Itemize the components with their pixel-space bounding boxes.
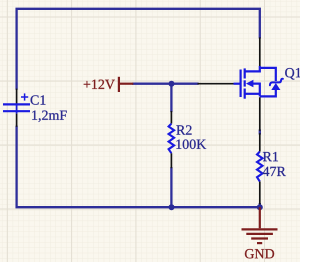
Q1 diode triangle (271, 83, 280, 90)
transistor Q1 MOSFET symbol (234, 66, 276, 99)
Q1 channel segment bottom (244, 89, 246, 99)
ground bar 4 (257, 242, 262, 244)
capacitor C1 plates (3, 104, 30, 111)
Q1 diode cathode bar with hooks (270, 79, 283, 85)
label R2 value 100K (176, 139, 206, 148)
wire left side down from C1 and bottom rail (17, 127, 260, 207)
wire R1 to gnd junction (259, 204, 261, 207)
label R1 designator (263, 152, 278, 161)
wires (net color) (17, 9, 260, 207)
resistor R2 zigzag (169, 124, 175, 154)
Q1 body line (253, 84, 260, 97)
pin R1 bottom (259, 181, 261, 204)
Q1 channel segment middle (244, 80, 246, 86)
wire +12V to gate (133, 83, 197, 85)
pins (black) (17, 37, 260, 204)
junction node at +12V/R2/gate (169, 81, 175, 87)
wire R2 bottom to rail (170, 168, 172, 207)
ground bar 1 (242, 228, 278, 230)
Q1 body diode branch bottom (260, 90, 276, 96)
label +12V (84, 80, 115, 89)
label C1 designator (31, 95, 46, 104)
Q1 source stub (245, 93, 260, 95)
junction node at R1/GND rail (257, 204, 263, 210)
pin Q1 drain (259, 37, 261, 66)
pin Q1 gate (198, 83, 234, 85)
pin R2 bottom (170, 153, 172, 168)
Q1 drain stub (245, 66, 260, 71)
Q1 gate lead (234, 83, 240, 85)
pin R1 top (259, 133, 261, 151)
capacitor C1 plus sign (21, 93, 28, 100)
label R1 value 47R (263, 167, 286, 176)
Q1 body diode branch top (260, 68, 276, 81)
Q1 channel segment top (244, 68, 246, 78)
wire top rail from C1 up across to Q1 drain (17, 9, 260, 89)
ground bar 2 (246, 233, 273, 235)
ground symbol (242, 207, 278, 243)
ground bar 3 (251, 237, 268, 239)
junction node at R2 bottom rail (169, 204, 175, 210)
label C1 value 1,2mF (32, 111, 66, 122)
label GND (245, 249, 274, 258)
label R2 designator (176, 125, 191, 134)
pin C1 bottom (16, 114, 18, 127)
Q1 body arrow (246, 80, 254, 88)
pin R2 top (170, 111, 172, 124)
capacitor C1 link between plates (16, 104, 18, 114)
resistor R1 zigzag (257, 152, 263, 182)
ground stem (259, 207, 261, 228)
label Q1 designator (285, 68, 301, 80)
Q1 gate bar (240, 70, 242, 98)
wire Q1 source to R1 (259, 131, 261, 134)
pin Q1 source (259, 97, 261, 131)
wire junction down to R2 top (170, 84, 172, 111)
pin C1 top (16, 89, 18, 104)
power port +12V bar (119, 77, 133, 92)
